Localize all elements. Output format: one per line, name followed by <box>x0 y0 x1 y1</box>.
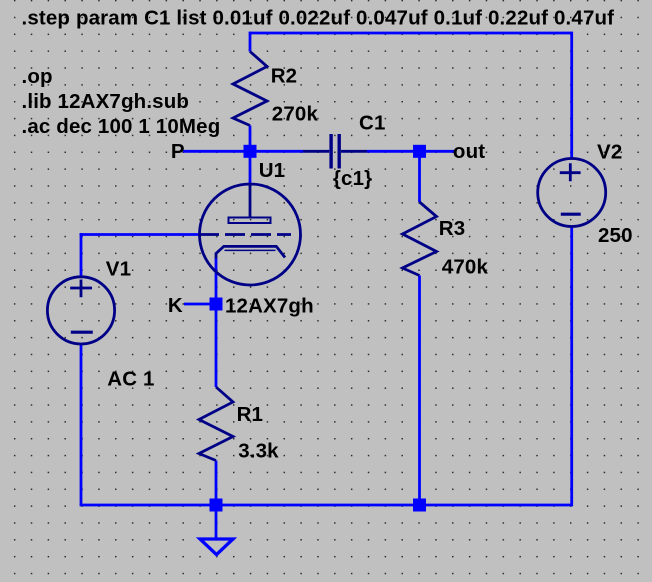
triode U1 plate <box>229 184 271 223</box>
op-amp: none; triode U1 envelope <box>200 184 301 285</box>
junction node K <box>210 298 223 311</box>
junction R3 bottom <box>413 499 426 512</box>
svg-text:3.3k: 3.3k <box>238 439 279 462</box>
wire R3 top lead <box>418 151 421 202</box>
svg-text:R2: R2 <box>271 65 298 88</box>
svg-text:250: 250 <box>598 224 633 247</box>
resistor R2 <box>233 52 267 126</box>
voltage source V1 <box>47 277 114 344</box>
wire V2 bottom <box>570 227 573 507</box>
resistor R3 <box>403 202 437 276</box>
junction node P <box>244 145 257 158</box>
wire P to C1 <box>250 150 303 153</box>
wire ground lead <box>215 505 218 539</box>
wire node P stub <box>183 150 250 153</box>
junction node out <box>413 145 426 158</box>
svg-text:12AX7gh: 12AX7gh <box>225 295 314 318</box>
svg-text:V1: V1 <box>106 258 131 281</box>
svg-text:out: out <box>453 140 485 163</box>
triode U1 grid <box>200 233 292 236</box>
wire V2 top drop <box>570 32 573 159</box>
triode U1 cathode <box>216 246 285 258</box>
svg-text:{c1}: {c1} <box>333 167 372 190</box>
svg-text:470k: 470k <box>442 255 489 278</box>
svg-text:U1: U1 <box>259 159 286 182</box>
wire V1 top <box>80 233 83 277</box>
wire bottom rail <box>80 504 572 507</box>
capacitor C1 <box>303 134 367 169</box>
wire R2 top lead <box>249 32 252 52</box>
svg-text:R3: R3 <box>439 217 466 240</box>
svg-text:K: K <box>168 294 183 317</box>
wire node K stub <box>184 303 216 306</box>
svg-text:C1: C1 <box>359 112 386 135</box>
wire R1 bottom <box>215 461 218 506</box>
svg-text:.lib 12AX7gh.sub: .lib 12AX7gh.sub <box>22 90 190 113</box>
ground <box>200 539 233 555</box>
wire R3 bottom lead <box>418 276 421 506</box>
wire V1 bottom <box>80 344 83 505</box>
wire cathode to R1 <box>215 258 218 387</box>
resistor R1 <box>199 387 233 461</box>
wire top rail B+ <box>250 32 572 35</box>
svg-text:270k: 270k <box>272 103 319 126</box>
svg-text:P: P <box>171 140 185 163</box>
wire grid to tube <box>80 233 200 236</box>
wire R2 bottom lead <box>249 126 252 152</box>
wire out stub <box>420 150 455 153</box>
svg-text:R1: R1 <box>237 403 264 426</box>
voltage source V2 <box>538 159 606 227</box>
svg-text:.op: .op <box>22 65 53 88</box>
svg-text:AC 1: AC 1 <box>107 367 154 390</box>
wire C1 to out junction <box>367 150 420 153</box>
svg-text:.ac dec 100 1 10Meg: .ac dec 100 1 10Meg <box>22 115 221 138</box>
wire plate lead <box>249 151 252 184</box>
junction R1 bottom <box>210 499 223 512</box>
svg-text:V2: V2 <box>597 141 622 164</box>
svg-text:.step param C1 list 0.01uf 0.0: .step param C1 list 0.01uf 0.022uf 0.047… <box>22 7 615 30</box>
